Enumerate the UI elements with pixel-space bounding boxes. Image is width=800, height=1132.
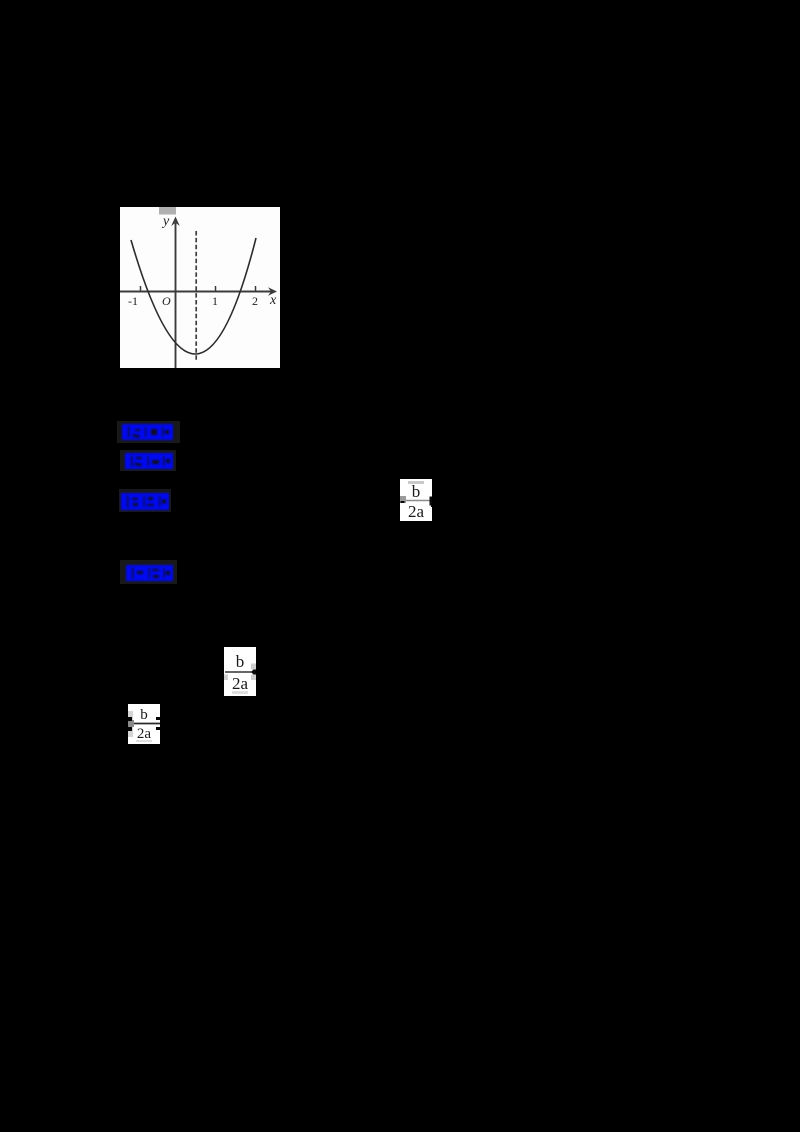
svg-text:b: b: [140, 707, 148, 723]
svg-text:b: b: [412, 482, 421, 501]
fraction b/2a #1: [400, 479, 432, 521]
svg-text:y: y: [161, 214, 170, 229]
y-axis arrowhead: [171, 217, 180, 227]
y-axis: [175, 223, 177, 368]
blue label 3: [119, 489, 171, 512]
svg-text:2: 2: [252, 294, 258, 308]
gray tab: [159, 207, 176, 215]
parabola graph figure: [120, 207, 280, 368]
blue label 2: [120, 450, 176, 471]
dashed axis of symmetry: [195, 231, 197, 361]
fraction b/2a #2: [224, 647, 256, 696]
svg-text:1: 1: [212, 294, 218, 308]
svg-text:-1: -1: [128, 294, 138, 308]
x-axis: [120, 291, 272, 293]
x-axis arrowhead: [268, 287, 277, 295]
blue label 4: [120, 560, 177, 584]
tick 1: [215, 286, 217, 291]
svg-text:O: O: [162, 294, 171, 308]
white background: [120, 207, 280, 368]
svg-text:2a: 2a: [408, 502, 425, 521]
tick 2: [255, 286, 257, 291]
tick -1: [140, 286, 142, 291]
parabola curve: [131, 238, 256, 354]
svg-text:x: x: [269, 293, 277, 308]
svg-text:2a: 2a: [232, 674, 249, 693]
blue label 1: [117, 421, 180, 443]
svg-text:2a: 2a: [137, 726, 152, 742]
fraction b/2a #3: [128, 704, 160, 744]
svg-text:b: b: [236, 652, 245, 671]
